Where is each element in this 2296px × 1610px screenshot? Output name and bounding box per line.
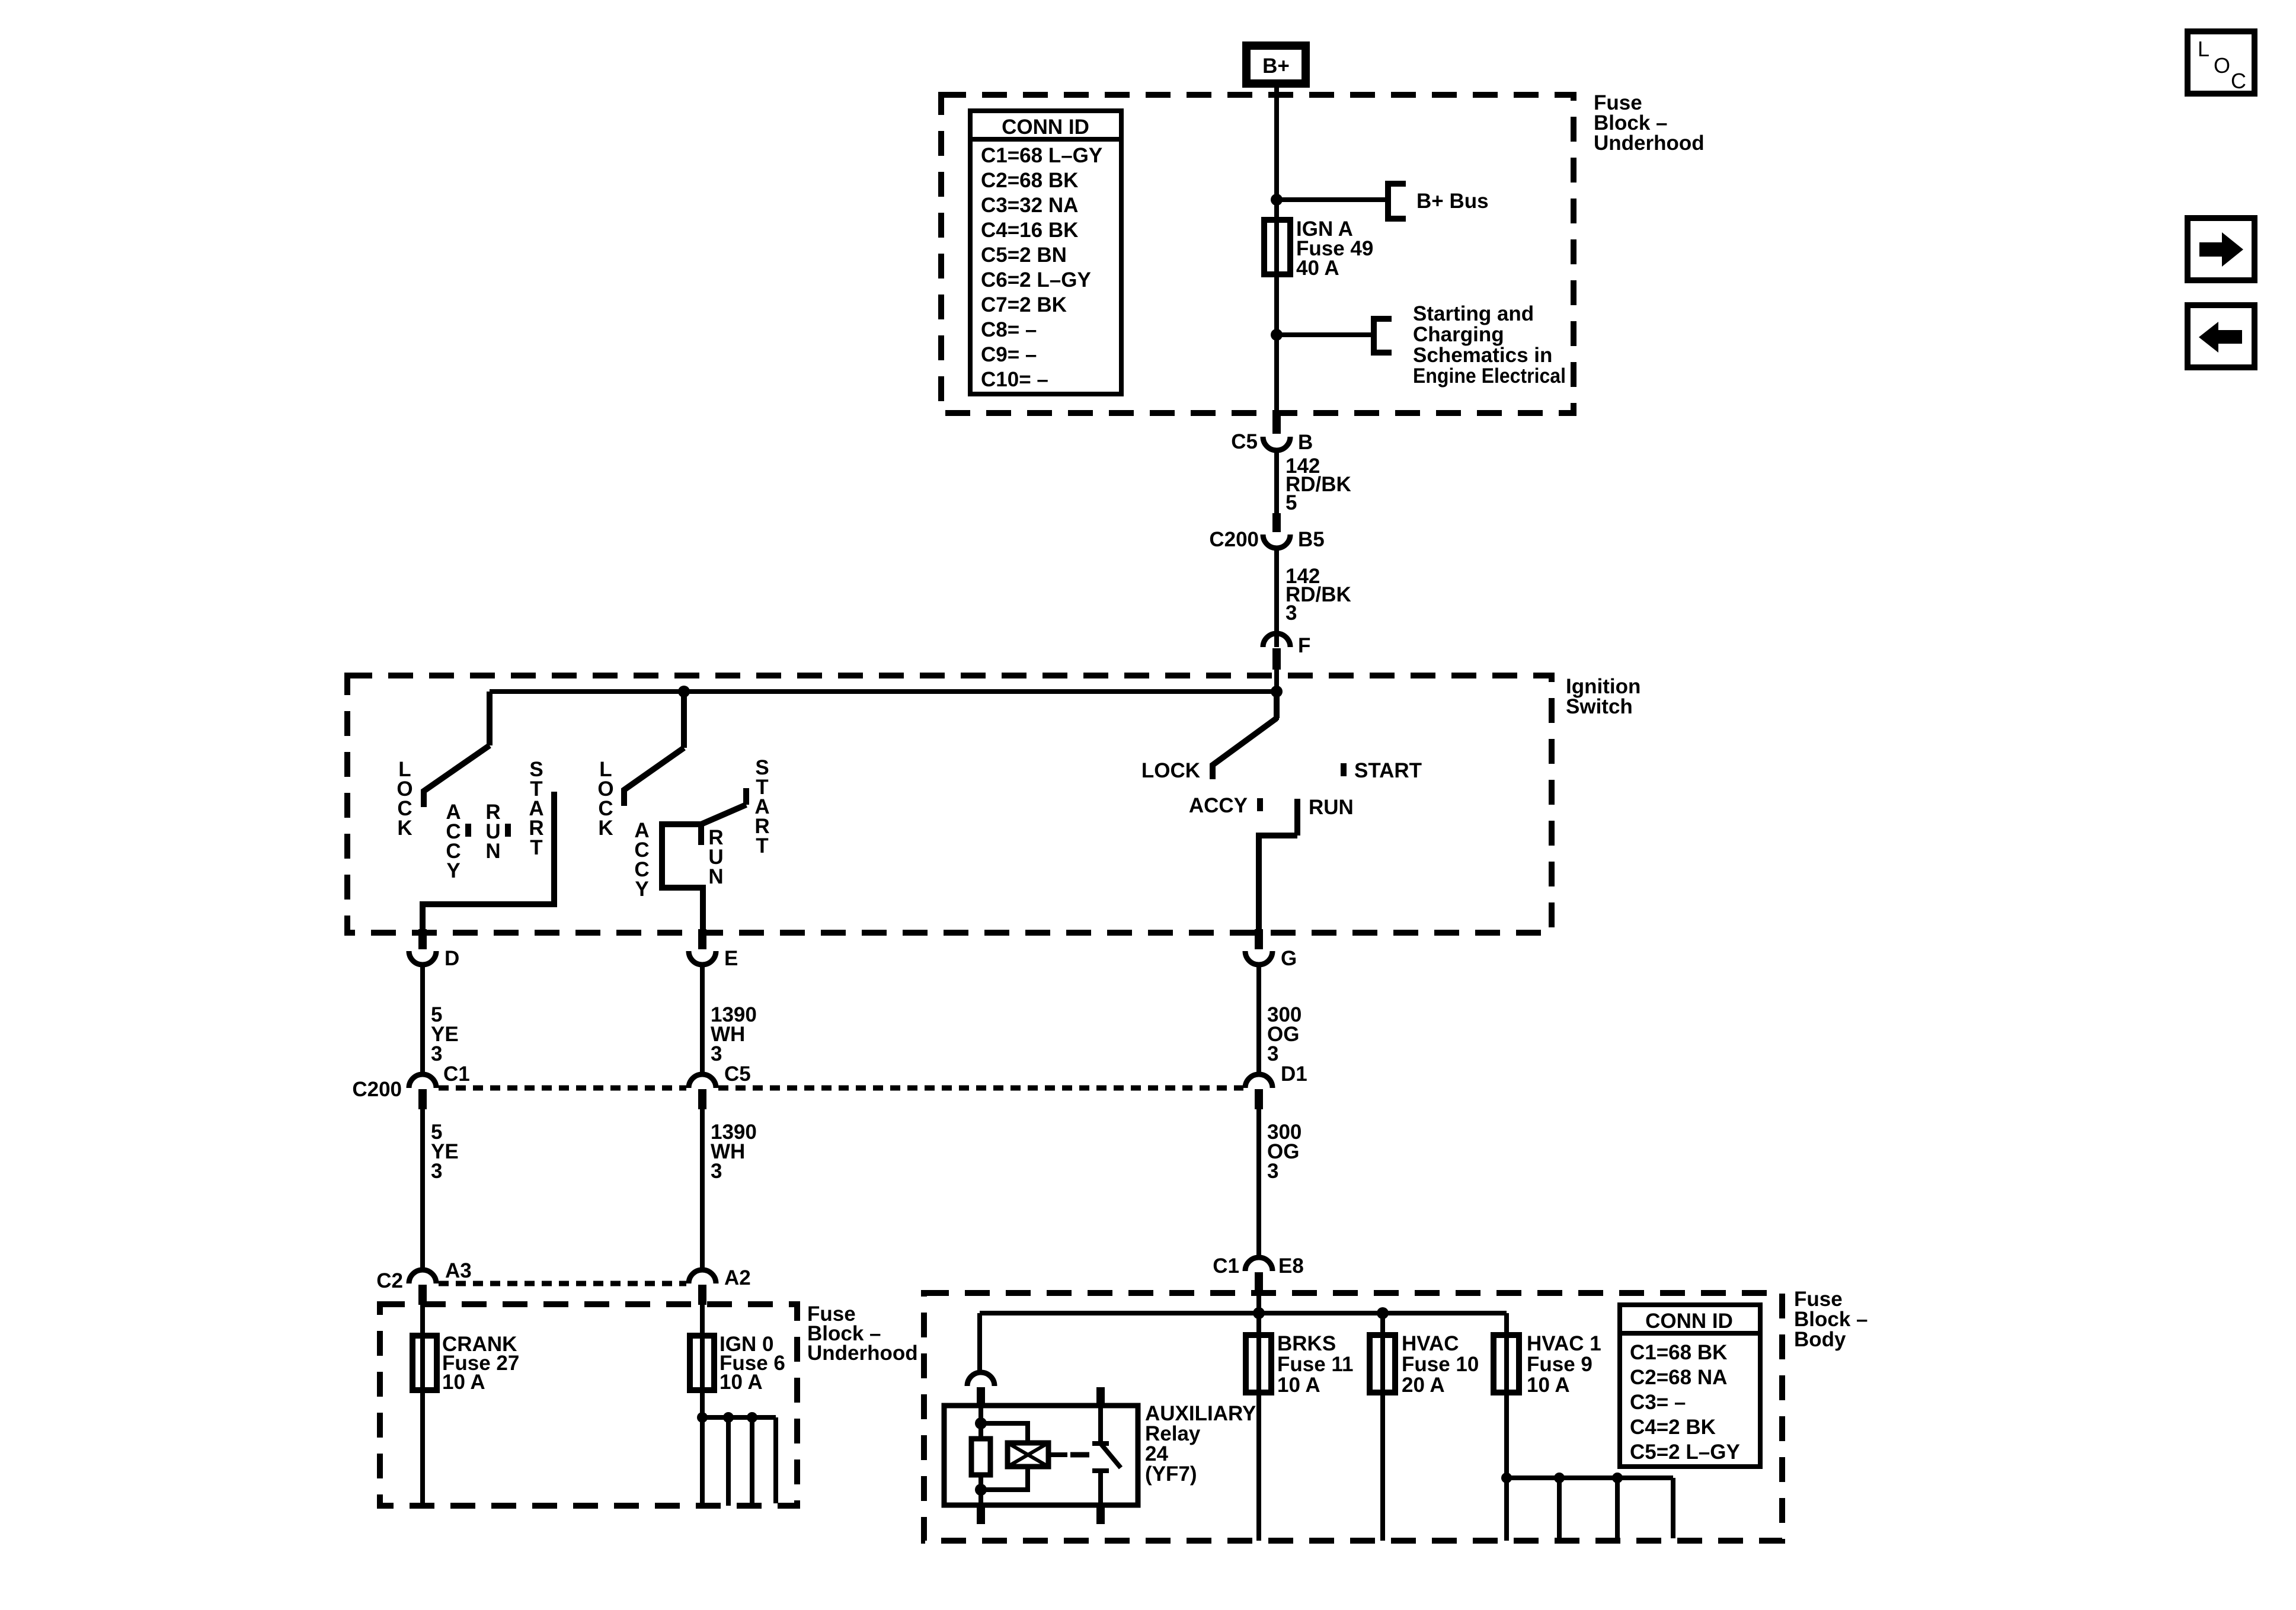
label Fuse Block - Underhood (bottom box) [807, 1302, 918, 1365]
svg-text:Schematics in: Schematics in [1413, 344, 1552, 367]
svg-text:3: 3 [431, 1042, 442, 1065]
svg-text:C3= –: C3= – [1630, 1391, 1686, 1414]
svg-text:CONN ID: CONN ID [1645, 1310, 1733, 1333]
nav arrow left box [2188, 305, 2255, 367]
switch sw2 blade start-run [701, 805, 746, 824]
svg-text:F: F [1298, 634, 1310, 657]
fuse block body box [924, 1293, 1782, 1541]
dashed actuator link [1070, 1452, 1089, 1458]
node junction dot starting branch [1271, 329, 1283, 341]
svg-text:Engine Electrical: Engine Electrical [1413, 364, 1566, 388]
svg-text:N: N [485, 840, 500, 863]
wire harness dotted C2 to A2 [439, 1281, 686, 1286]
resistor relay internal [971, 1439, 990, 1475]
label wire 300 OG 3 (upper) [1267, 1003, 1302, 1065]
label IGN A Fuse 49 40 A [1296, 217, 1373, 280]
contact pole sw3 run [1294, 799, 1300, 836]
wire CRANK fuse to box bottom [420, 1390, 425, 1506]
wire C200.C5 to A2 [700, 1109, 705, 1270]
label LOCK sw1 (vertical) [396, 758, 412, 840]
wire resistor bottom [978, 1475, 983, 1505]
label IGN 0 Fuse 6 10 A [720, 1333, 785, 1394]
svg-text:C5: C5 [1231, 430, 1258, 453]
relay switch lower contact bar [1092, 1468, 1109, 1473]
starting-charging off-page bracket [1373, 316, 1392, 356]
switch sw3 pole drop [1274, 692, 1280, 718]
svg-text:C5=2 L–GY: C5=2 L–GY [1630, 1441, 1740, 1464]
svg-text:D1: D1 [1281, 1062, 1307, 1086]
wire harness C200 dotted left [439, 1086, 686, 1091]
node bus tap sw2 [678, 686, 690, 697]
svg-text:C1=68 L–GY: C1=68 L–GY [981, 144, 1102, 167]
svg-text:C4=2 BK: C4=2 BK [1630, 1416, 1716, 1439]
relay pin stub bottom-right [1096, 1505, 1105, 1524]
fuse block underhood box (top) [941, 95, 1574, 413]
svg-text:K: K [397, 817, 412, 840]
fuse block underhood box (bottom) [380, 1304, 797, 1506]
fuse BRKS Fuse 11 10 A [1246, 1335, 1271, 1393]
relay pin stub top-right [1096, 1387, 1105, 1406]
relay switch blade [1101, 1443, 1121, 1468]
svg-text:O: O [2214, 53, 2230, 78]
contact tick sw3 start [1341, 763, 1347, 776]
svg-text:E: E [724, 947, 738, 970]
relay pin stub top-left [977, 1387, 985, 1406]
svg-text:L: L [2198, 37, 2209, 61]
connector pin E [689, 929, 738, 970]
svg-text:T: T [756, 834, 768, 857]
label wire 1390 WH 3 (upper) [711, 1003, 757, 1065]
svg-text:K: K [598, 817, 613, 840]
wire HVAC1 drop elbow [1504, 1313, 1509, 1335]
wire D to C200.C1 [420, 965, 425, 1075]
svg-text:C9= –: C9= – [981, 343, 1037, 366]
wire sw3 run to G [1259, 836, 1297, 930]
wire HVAC1 fuse to comb [1504, 1393, 1509, 1541]
connector C1 pin E8 [1213, 1254, 1304, 1292]
svg-text:C1=68 BK: C1=68 BK [1630, 1341, 1727, 1364]
nav arrow right box [2188, 218, 2255, 280]
svg-text:E8: E8 [1278, 1254, 1304, 1278]
wire E to C200.C5 [700, 965, 705, 1075]
svg-text:A3: A3 [445, 1259, 472, 1282]
label Ignition Switch [1566, 675, 1641, 718]
svg-text:10 A: 10 A [1527, 1374, 1570, 1397]
connector pin G [1245, 929, 1297, 970]
connector C5 pin B [1231, 415, 1313, 454]
svg-text:Fuse 11: Fuse 11 [1277, 1353, 1353, 1376]
svg-text:5: 5 [1285, 491, 1297, 514]
svg-text:3: 3 [711, 1160, 722, 1183]
svg-text:C6=2 L–GY: C6=2 L–GY [981, 268, 1091, 292]
power symbol B+ [1246, 46, 1306, 84]
svg-text:C4=16 BK: C4=16 BK [981, 219, 1078, 242]
label START sw2 (vertical) [754, 756, 769, 857]
wire bus elbow to relay connector [977, 1313, 982, 1372]
B+ Bus off-page bracket [1387, 181, 1406, 222]
wire IGN 0 fuse to bus comb [700, 1390, 705, 1506]
svg-text:T: T [530, 836, 542, 859]
wire sw2 accy-run bracket to E [662, 824, 703, 930]
label LOCK sw2 (vertical) [597, 758, 613, 840]
wire C200.D1 to C1.E8 [1256, 1109, 1261, 1259]
node relay top junction [975, 1417, 987, 1429]
svg-text:Fuse 10: Fuse 10 [1402, 1353, 1479, 1376]
svg-text:Charging: Charging [1413, 323, 1504, 346]
svg-text:Underhood: Underhood [1594, 132, 1705, 155]
svg-text:3: 3 [711, 1042, 722, 1065]
svg-text:40 A: 40 A [1296, 257, 1339, 280]
svg-text:C5: C5 [724, 1062, 751, 1086]
svg-text:B+: B+ [1262, 55, 1290, 78]
ignition switch box [347, 676, 1552, 933]
svg-text:10 A: 10 A [442, 1371, 485, 1394]
label START sw1 (vertical) [529, 758, 543, 859]
svg-text:(YF7): (YF7) [1145, 1462, 1197, 1486]
label Starting and Charging Schematics in Engine Electrical [1413, 302, 1566, 388]
svg-text:Starting and: Starting and [1413, 302, 1534, 325]
connector pin F ignition switch [1263, 633, 1310, 670]
wire G to C200.D1 [1256, 965, 1261, 1075]
svg-text:3: 3 [1267, 1160, 1278, 1183]
svg-text:3: 3 [1267, 1042, 1278, 1065]
svg-text:B5: B5 [1298, 528, 1325, 551]
label wire 1390 WH 3 (lower) [711, 1121, 757, 1183]
label BRKS Fuse 11 10 A [1277, 1332, 1353, 1397]
fuse HVAC 1 Fuse 9 10 A [1494, 1335, 1519, 1393]
wire B+ to fuse [1274, 88, 1279, 220]
wire BRKS drop [1256, 1313, 1261, 1335]
wire coil branch bottom [981, 1467, 1028, 1490]
label wire 300 OG 3 (lower) [1267, 1121, 1302, 1183]
connector relay coil feed [967, 1372, 994, 1406]
svg-text:D: D [445, 947, 459, 970]
label CRANK Fuse 27 10 A [442, 1333, 519, 1394]
bus comb under HVAC 1 [1501, 1473, 1673, 1541]
label wire 142 RD/BK 5 [1285, 454, 1351, 514]
contact tick sw1 accy [465, 824, 471, 837]
relay switch upper pin [1098, 1406, 1103, 1441]
wire A2 into box [700, 1305, 705, 1336]
svg-text:C2=68 NA: C2=68 NA [1630, 1366, 1727, 1389]
connector pin D [409, 929, 459, 970]
contact tick sw2 start [743, 788, 749, 805]
LOC legend box [2188, 31, 2255, 94]
svg-text:C8= –: C8= – [981, 318, 1037, 341]
svg-text:RUN: RUN [1309, 796, 1354, 819]
connector C200 pin C5 [689, 1062, 751, 1109]
svg-text:C1: C1 [443, 1062, 470, 1086]
node dot bus at BRKS [1253, 1307, 1265, 1319]
label Fuse Block - Body [1794, 1288, 1868, 1351]
wire BRKS fuse to box bottom [1256, 1393, 1261, 1541]
contact tick sw1 run [505, 824, 511, 837]
svg-text:Switch: Switch [1566, 695, 1633, 718]
wire C200.B5 to ignition switch F [1274, 547, 1279, 647]
connector C200 pin B5 [1209, 513, 1324, 551]
CONN ID table (body) [1620, 1305, 1760, 1467]
wire harness C200 dotted right [718, 1086, 1243, 1091]
svg-text:C: C [2231, 69, 2246, 93]
bus comb under IGN 0 fuse [697, 1412, 776, 1506]
label ACCY sw2 (vertical) [634, 819, 649, 901]
switch sw1 pole drop [487, 692, 493, 745]
connector C2 pin A3 [376, 1259, 472, 1305]
svg-text:C200: C200 [352, 1078, 402, 1101]
switch sw2 blade to LOCK [624, 748, 684, 806]
label Fuse Block - Underhood (top box) [1594, 91, 1705, 155]
node dot bus at HVAC [1377, 1307, 1389, 1319]
svg-text:3: 3 [1285, 601, 1297, 625]
svg-text:20 A: 20 A [1402, 1374, 1445, 1397]
wire body bus [980, 1311, 1507, 1315]
connector pin A2 [689, 1266, 751, 1305]
label ACCY sw1 (vertical) [446, 801, 461, 882]
wire HVAC drop [1380, 1313, 1385, 1335]
wire branch to starting and charging [1277, 332, 1374, 337]
svg-text:G: G [1281, 947, 1297, 970]
svg-text:BRKS: BRKS [1277, 1332, 1336, 1355]
connector C200 pin D1 [1245, 1062, 1307, 1109]
contact tick sw2 run [698, 824, 704, 845]
switch sw2 pole drop [681, 692, 687, 748]
svg-text:A2: A2 [724, 1266, 751, 1289]
svg-text:C2=68 BK: C2=68 BK [981, 169, 1078, 192]
svg-text:Y: Y [446, 859, 460, 882]
wire HVAC fuse to box bottom [1380, 1393, 1385, 1541]
wire E8 into box [1256, 1292, 1261, 1337]
svg-text:HVAC 1: HVAC 1 [1527, 1332, 1601, 1355]
label RUN sw2 (vertical) [708, 826, 723, 888]
fuse IGN 0 Fuse 6 10 A [690, 1336, 714, 1390]
relay AUXILIARY Relay 24 (YF7) box [944, 1406, 1138, 1505]
label wire 142 RD/BK 3 [1285, 565, 1351, 625]
svg-text:C2: C2 [376, 1269, 403, 1292]
wire fuse to connector C5 [1274, 274, 1279, 417]
svg-text:Fuse 9: Fuse 9 [1527, 1353, 1593, 1376]
relay coil (boxed X) [1008, 1443, 1048, 1467]
label HVAC Fuse 10 20 A [1402, 1332, 1479, 1397]
fuse HVAC Fuse 10 20 A [1370, 1335, 1395, 1393]
svg-text:10 A: 10 A [720, 1371, 763, 1394]
wire branch to B+ Bus [1277, 197, 1388, 202]
wire C5.B to C200.B5 [1274, 449, 1279, 514]
svg-text:B: B [1298, 431, 1313, 454]
switch sw3 blade to LOCK [1213, 718, 1277, 779]
label wire 5 YE 3 (upper) [431, 1003, 459, 1065]
svg-text:10 A: 10 A [1277, 1374, 1320, 1397]
svg-text:C1: C1 [1213, 1254, 1239, 1278]
node bus tap sw3 [1271, 686, 1283, 697]
connector C200 pin C1 [352, 1062, 469, 1109]
contact tick sw3 accy [1257, 798, 1263, 811]
svg-text:HVAC: HVAC [1402, 1332, 1459, 1355]
switch sw1 blade to LOCK [424, 745, 490, 807]
wire A3 into box [420, 1305, 425, 1336]
svg-text:Underhood: Underhood [807, 1342, 918, 1365]
node relay bottom junction [975, 1484, 987, 1496]
svg-text:C10= –: C10= – [981, 368, 1048, 391]
relay coil-side pin wire [978, 1406, 983, 1439]
svg-text:Body: Body [1794, 1328, 1846, 1351]
svg-text:C7=2 BK: C7=2 BK [981, 293, 1067, 316]
wire sw1 START pole to D [423, 792, 554, 930]
wire coil branch top [981, 1423, 1028, 1443]
svg-text:LOCK: LOCK [1141, 759, 1200, 782]
fuse IGN A Fuse 49 40 A [1264, 220, 1290, 274]
label RUN sw1 (vertical) [485, 801, 500, 863]
relay switch lower pin [1098, 1471, 1103, 1505]
node junction dot B+ bus tap [1271, 194, 1283, 206]
wire coil actuator stub [1048, 1452, 1067, 1457]
relay pin stub bottom-left [977, 1505, 985, 1524]
wire C200.C1 to C2.A3 [420, 1109, 425, 1270]
svg-text:B+ Bus: B+ Bus [1416, 190, 1489, 213]
label AUXILIARY Relay 24 (YF7) [1145, 1402, 1256, 1486]
fuse CRANK Fuse 27 10 A [412, 1336, 437, 1390]
label HVAC 1 Fuse 9 10 A [1527, 1332, 1601, 1397]
svg-text:ACCY: ACCY [1189, 794, 1248, 817]
svg-text:START: START [1354, 759, 1422, 782]
wire F into ignition switch [1274, 670, 1279, 720]
svg-text:C3=32 NA: C3=32 NA [981, 194, 1078, 217]
CONN ID table (underhood) [970, 111, 1121, 394]
svg-text:N: N [708, 865, 723, 888]
label wire 5 YE 3 (lower) [431, 1121, 459, 1183]
wire ignition bus [490, 689, 1277, 694]
svg-text:Y: Y [635, 878, 648, 901]
svg-text:3: 3 [431, 1160, 442, 1183]
relay switch top contact bar [1092, 1441, 1109, 1446]
svg-text:CONN ID: CONN ID [1002, 116, 1089, 139]
svg-text:C5=2 BN: C5=2 BN [981, 244, 1067, 267]
svg-text:C200: C200 [1209, 528, 1259, 551]
